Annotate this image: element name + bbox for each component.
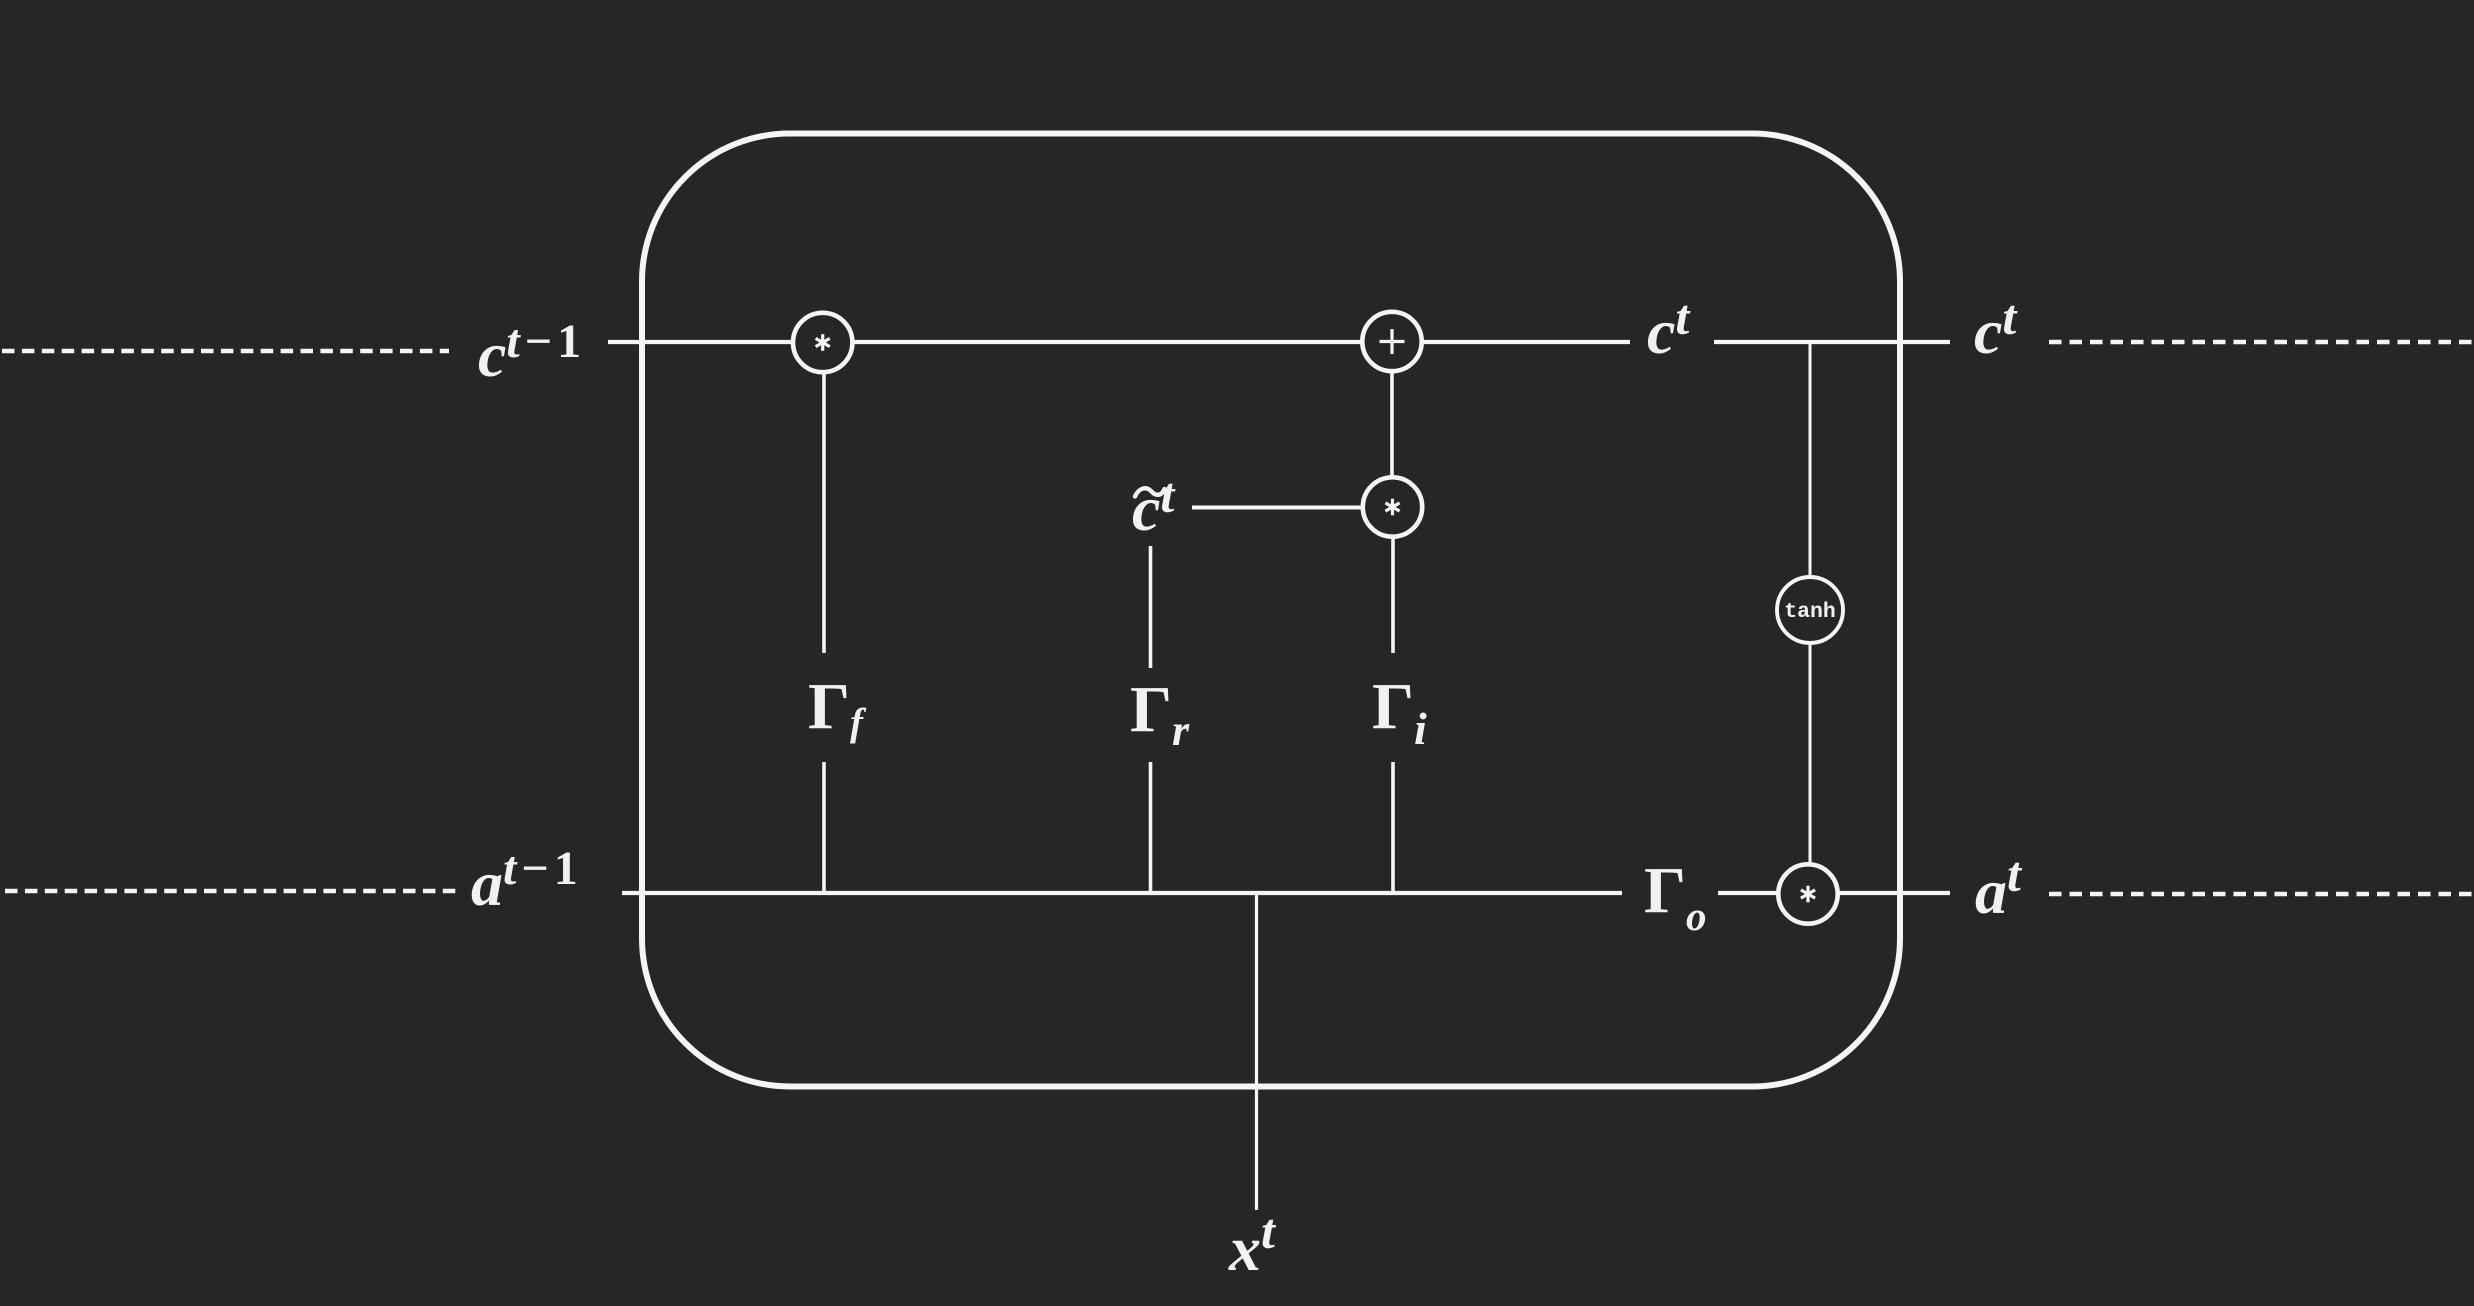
wire x input stem — [1255, 894, 1258, 1210]
wire gate r vertical upper — [1149, 546, 1153, 668]
wire plus to mult2 vertical — [1390, 345, 1394, 505]
wire gate r vertical lower — [1149, 762, 1153, 891]
wire c-line left segment — [608, 340, 1630, 344]
op mult2 (input gate product) — [1363, 477, 1422, 536]
svg-text:tanh: tanh — [1784, 600, 1836, 624]
dashed input wire c (left) — [2, 349, 449, 353]
wire gate f vertical lower — [822, 762, 826, 891]
dashed input wire a (left) — [5, 889, 456, 893]
wire a-line left segment — [622, 891, 1622, 895]
dashed output wire c (right) — [2049, 340, 2474, 344]
wire tanh vertical chain — [1809, 344, 1812, 892]
op mult1 (forget gate product) — [793, 313, 852, 372]
op plus (cell state sum) — [1362, 312, 1421, 371]
wire a-line right segment — [1718, 891, 1950, 895]
dashed output wire a (right) — [2049, 892, 2474, 896]
tilde accent over c-tilde — [1135, 488, 1165, 496]
wire c-tilde to mult2 — [1192, 506, 1380, 510]
LSTM cell box — [642, 134, 1900, 1087]
wire c-line right segment — [1714, 340, 1950, 344]
wire gate f vertical upper — [822, 370, 826, 653]
wire gate i vertical upper — [1391, 537, 1395, 653]
op tanh — [1777, 577, 1843, 643]
wire gate i vertical lower — [1391, 762, 1395, 891]
op mult3 (output gate product) — [1778, 864, 1837, 923]
